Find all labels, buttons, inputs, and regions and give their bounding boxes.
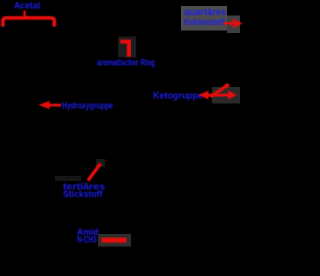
red arrow from boxed label pointing right: [224, 19, 243, 29]
gray highlight box right patch behind arrow: [227, 16, 240, 34]
svg-text:Kohlenstoff: Kohlenstoff: [184, 17, 226, 27]
red arrow pointing left at stereocentre: [39, 101, 62, 109]
gray halo behind N-methyl bond highlight: [98, 234, 131, 247]
svg-text:N-CH3: N-CH3: [77, 235, 97, 245]
gray highlight box (top right label background): [181, 6, 227, 31]
svg-text:aromatischer Ring: aromatischer Ring: [97, 58, 155, 68]
red pointer line to tertiary nitrogen: [88, 164, 101, 181]
svg-text:Stickstoff: Stickstoff: [63, 189, 103, 199]
red highlighted N-CH3 bond: [102, 238, 127, 243]
faint bond shadow near amine: [55, 176, 81, 181]
red over-brace spanning the top-left group: [3, 11, 54, 27]
gray halo behind corner pointer: [118, 37, 136, 58]
svg-text:Acetal: Acetal: [14, 1, 40, 12]
red highlighted C=O double bond: [211, 85, 229, 97]
svg-text:quartäres: quartäres: [184, 7, 226, 17]
gray halo behind ketone arrow: [212, 87, 240, 104]
svg-text:Hydroxygruppe: Hydroxygruppe: [62, 100, 113, 111]
hidden skeleton: alkaloid carbon framework (black on black): [28, 30, 236, 241]
red double-ended pointer on the ketone: [199, 84, 237, 100]
red corner pointer to ring fusion: [120, 40, 129, 57]
svg-text:Ketogruppe: Ketogruppe: [153, 90, 203, 100]
gray fuzz at amine pointer top: [96, 159, 105, 167]
